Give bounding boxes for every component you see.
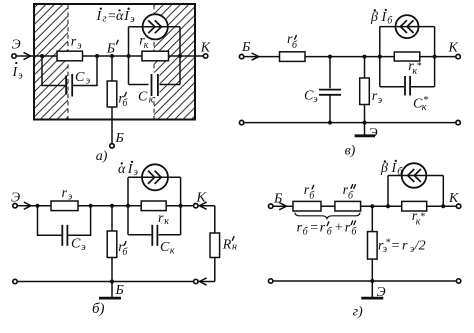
resistor re xyxy=(57,51,83,61)
terminal bottom right xyxy=(456,279,460,283)
svg-text:Б: Б xyxy=(273,192,282,207)
terminal B xyxy=(110,144,114,148)
wire: base drop xyxy=(111,56,113,143)
wire: Ce loop left drop xyxy=(42,56,65,86)
svg-text:Б: Б xyxy=(106,42,115,57)
wire: Ce loop right rise xyxy=(73,56,97,86)
current source circle xyxy=(402,163,427,188)
svg-text:К: К xyxy=(448,41,459,56)
svg-text:=: = xyxy=(309,221,318,236)
terminal K xyxy=(203,54,207,58)
source chevrons left xyxy=(400,20,413,33)
svg-text:*: * xyxy=(416,61,421,72)
svg-text:г): г) xyxy=(353,304,363,319)
terminal K xyxy=(456,204,460,208)
capacitor Ce plates horizontal xyxy=(319,90,341,95)
ground symbol xyxy=(371,281,373,297)
label rb sum xyxy=(297,221,358,238)
svg-text:г: г xyxy=(103,14,107,25)
label rk* xyxy=(408,59,421,77)
wire through source xyxy=(128,176,181,178)
resistor r'b xyxy=(293,201,321,211)
svg-text:Э: Э xyxy=(11,191,20,206)
terminal bottom left xyxy=(13,279,17,283)
svg-text:э: э xyxy=(77,40,82,51)
capacitor Ck* plates xyxy=(405,76,410,96)
node dots xyxy=(36,204,40,208)
wire: Ce drop xyxy=(329,57,331,89)
resistor rk* xyxy=(402,201,427,211)
underbrace xyxy=(295,213,360,219)
label Ig = alpha Ie xyxy=(96,8,136,25)
svg-text:β: β xyxy=(370,10,378,25)
arrow input current xyxy=(24,52,31,59)
wire: Ck loop bottom xyxy=(128,234,151,236)
capacitor Ce plates xyxy=(66,74,72,97)
svg-text:э: э xyxy=(378,95,383,106)
svg-text:C: C xyxy=(160,240,170,255)
svg-text:*: * xyxy=(420,211,425,222)
terminal K right xyxy=(456,54,460,58)
label r'b xyxy=(287,32,298,51)
wire: re* drop xyxy=(371,206,373,231)
wire: load vertical xyxy=(214,206,216,233)
wire: main wire xyxy=(273,205,456,207)
label re xyxy=(71,35,83,52)
svg-text:C: C xyxy=(71,237,81,252)
label R'n xyxy=(222,237,237,253)
terminal bottom left xyxy=(269,279,273,283)
svg-text:Э: Э xyxy=(12,38,21,53)
source chevrons xyxy=(148,171,161,184)
label r'b xyxy=(118,91,128,109)
arrow into bottom terminal xyxy=(199,278,206,285)
svg-text:э: э xyxy=(313,94,318,105)
label r''b xyxy=(343,183,356,202)
resistor r'b xyxy=(280,52,306,62)
label r'b xyxy=(304,183,315,202)
svg-text:Б: Б xyxy=(115,283,124,298)
node dots xyxy=(370,204,374,208)
label re xyxy=(372,89,383,106)
wire: Ck loop bottom left xyxy=(129,84,151,86)
dashed boundary left xyxy=(67,5,69,119)
label rk xyxy=(158,211,169,227)
arrow input xyxy=(252,53,259,60)
svg-text:н: н xyxy=(232,242,237,253)
resistor re xyxy=(51,201,78,211)
current source circle U1 xyxy=(143,14,168,39)
label beta Ib xyxy=(380,160,403,178)
svg-text:C: C xyxy=(75,70,85,85)
resistor rk xyxy=(142,51,169,61)
resistor r'b vertical xyxy=(107,231,117,258)
source chevrons xyxy=(408,169,421,182)
svg-text:r: r xyxy=(62,186,68,201)
capacitor Ck plates xyxy=(152,74,158,96)
wire: re drop xyxy=(364,57,366,78)
resistor re vertical xyxy=(360,78,370,105)
wire: main emitter-collector wire xyxy=(17,55,204,57)
dashed boundary right xyxy=(153,5,155,119)
wire: main base-collector wire xyxy=(244,56,455,58)
terminal B xyxy=(269,204,273,208)
terminal Э xyxy=(12,54,16,58)
svg-text:C: C xyxy=(138,89,148,104)
capacitor Ck white backing xyxy=(149,73,160,98)
arrow input xyxy=(24,202,31,209)
svg-text:к: к xyxy=(422,102,427,113)
terminal B left xyxy=(239,54,243,58)
capacitor Ce plates xyxy=(62,225,67,246)
svg-text:r: r xyxy=(402,238,408,253)
arrow input xyxy=(279,203,286,210)
wire: current source left vertical xyxy=(128,27,130,85)
svg-text:К: К xyxy=(200,40,211,55)
ground symbol xyxy=(111,282,113,298)
resistor r'b vertical xyxy=(107,81,117,107)
svg-text:в): в) xyxy=(345,143,356,158)
wire: load bottom xyxy=(199,281,215,283)
svg-text:к: к xyxy=(170,245,175,256)
svg-text:/2: /2 xyxy=(414,238,426,253)
resistor r''b xyxy=(335,201,361,211)
svg-text:Э: Э xyxy=(369,126,378,141)
node: source right junction xyxy=(178,54,182,58)
wire: source right vertical xyxy=(434,27,436,87)
svg-text:э: э xyxy=(81,242,86,253)
label re* = re/2 xyxy=(378,237,426,255)
wire: source verticals xyxy=(127,177,129,235)
current source circle xyxy=(396,15,419,38)
label Ck xyxy=(138,89,154,105)
resistor rk* xyxy=(394,52,420,61)
svg-text:к: к xyxy=(144,40,149,51)
current source chevrons xyxy=(148,20,161,33)
svg-text:э: э xyxy=(68,191,73,202)
svg-text:б): б) xyxy=(92,301,105,317)
svg-text:r: r xyxy=(345,221,351,236)
label re xyxy=(62,186,73,203)
svg-text:э: э xyxy=(18,70,23,81)
node B' junction xyxy=(110,54,114,58)
wire through current source xyxy=(129,26,181,28)
svg-text:β: β xyxy=(380,161,388,176)
resistor re* vertical xyxy=(368,232,378,260)
wire through source xyxy=(380,26,435,28)
resistor rk xyxy=(141,201,166,211)
svg-text:э: э xyxy=(86,75,91,86)
svg-text:=: = xyxy=(391,238,400,253)
wire: Ck loop bottom right xyxy=(159,84,180,86)
resistor R'n vertical xyxy=(210,233,220,258)
wire through source xyxy=(388,175,443,177)
svg-text:к: к xyxy=(164,216,169,227)
terminal bottom right xyxy=(194,279,198,283)
emitter junction hatched region xyxy=(35,5,68,119)
label beta Ib xyxy=(370,9,393,27)
svg-text:Б: Б xyxy=(115,131,124,146)
collector junction hatched region xyxy=(154,5,194,119)
wire: Ck* loop bottom xyxy=(380,86,404,88)
label Ce xyxy=(75,70,91,87)
wire: Ce loop xyxy=(38,206,62,236)
arrow into K xyxy=(199,202,206,209)
label Ck* xyxy=(413,95,428,113)
ground symbol xyxy=(364,123,366,135)
wire: main wire xyxy=(18,205,194,207)
svg-text:r: r xyxy=(71,35,77,50)
wire: current source right vertical xyxy=(179,27,181,85)
wire: K to load xyxy=(199,205,215,207)
svg-text:а): а) xyxy=(96,149,108,164)
svg-text:э: э xyxy=(383,244,388,255)
svg-text:r: r xyxy=(320,221,326,236)
svg-text:к: к xyxy=(416,216,421,227)
svg-text:Э: Э xyxy=(377,285,386,300)
terminal K xyxy=(194,204,198,208)
node: source left junction xyxy=(127,54,131,58)
label r'b xyxy=(118,240,128,258)
wire: source verticals xyxy=(387,176,389,207)
node dots xyxy=(328,55,332,59)
svg-text:r: r xyxy=(158,211,164,226)
svg-text:к: к xyxy=(412,66,417,77)
node: Ce left junction xyxy=(40,54,44,58)
label rk* xyxy=(412,209,425,227)
node: Ce right junction xyxy=(95,54,99,58)
transistor body box xyxy=(34,4,195,120)
current source circle xyxy=(142,164,168,190)
wire: bottom rail xyxy=(273,280,456,282)
wire: bottom rail xyxy=(244,122,456,124)
svg-text:Б: Б xyxy=(241,40,250,55)
label alpha Ie xyxy=(118,161,139,178)
svg-text:к: к xyxy=(149,95,154,106)
svg-text:К: К xyxy=(196,191,207,206)
label rk xyxy=(139,34,149,52)
svg-text:R: R xyxy=(222,238,232,253)
wire: bottom rail xyxy=(18,281,194,283)
wire: source left vertical xyxy=(379,27,381,87)
label B' node xyxy=(106,40,118,56)
terminal Э xyxy=(13,204,17,208)
svg-text:э: э xyxy=(130,14,135,25)
label Ck xyxy=(160,240,175,256)
capacitor Ck plates xyxy=(152,225,157,246)
label Ie input xyxy=(12,62,24,82)
svg-text:э: э xyxy=(134,167,139,178)
svg-text:К: К xyxy=(448,191,459,206)
terminal bottom right xyxy=(456,120,460,124)
wire: base drop r'b xyxy=(111,206,113,231)
svg-text:+: + xyxy=(334,221,343,236)
terminal bottom left xyxy=(239,120,243,124)
label Ce xyxy=(304,88,318,105)
label Ce xyxy=(71,237,86,254)
